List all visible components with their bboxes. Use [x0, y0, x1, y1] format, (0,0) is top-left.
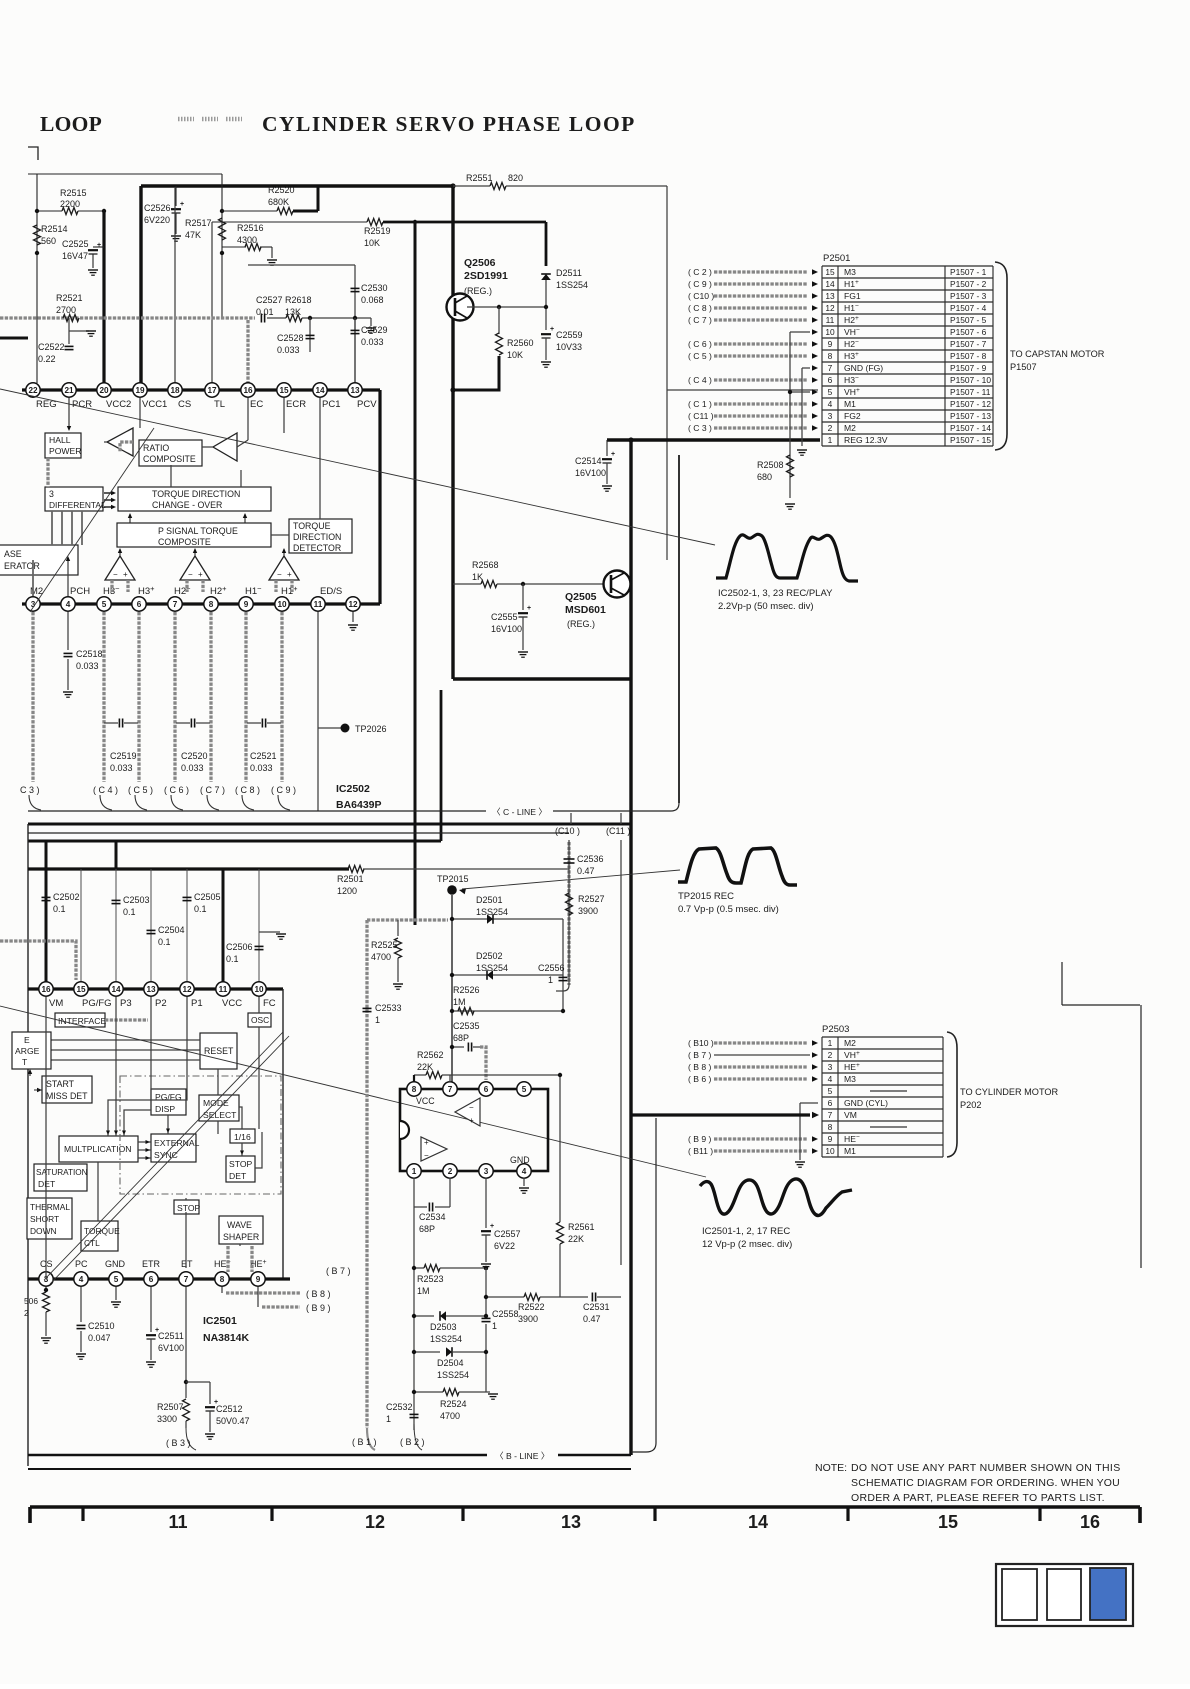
svg-text:6: 6: [828, 1098, 833, 1108]
svg-text:FG1: FG1: [844, 291, 861, 301]
svg-text:4700: 4700: [371, 952, 391, 962]
svg-text:TO CYLINDER MOTOR: TO CYLINDER MOTOR: [960, 1087, 1059, 1097]
svg-text:P1507: P1507: [1010, 362, 1037, 372]
svg-text:+: +: [123, 570, 128, 579]
svg-text:2: 2: [828, 423, 833, 433]
svg-text:+: +: [424, 1138, 429, 1147]
svg-text:C2530: C2530: [361, 283, 388, 293]
svg-text:−: −: [424, 1151, 429, 1160]
svg-text:IC2501-1, 2, 17 REC: IC2501-1, 2, 17 REC: [702, 1226, 790, 1237]
svg-text:C2536: C2536: [577, 854, 604, 864]
svg-text:VCC2: VCC2: [106, 399, 131, 410]
svg-text:( C 5 ): ( C 5 ): [688, 351, 712, 361]
svg-text:15: 15: [938, 1512, 958, 1532]
svg-text:4: 4: [522, 1167, 527, 1176]
svg-text:1: 1: [375, 1015, 380, 1025]
svg-text:P1507 - 3: P1507 - 3: [950, 291, 987, 301]
svg-text:10: 10: [277, 600, 287, 609]
svg-text:ETR: ETR: [142, 1259, 161, 1269]
svg-text:12: 12: [365, 1512, 385, 1532]
svg-text:MSD601: MSD601: [565, 604, 606, 616]
svg-text:15: 15: [279, 386, 289, 395]
svg-text:P202: P202: [960, 1100, 981, 1110]
svg-text:1: 1: [412, 1167, 417, 1176]
svg-text:LOOP: LOOP: [40, 112, 102, 136]
svg-text:−: −: [277, 570, 282, 579]
svg-text:1: 1: [548, 975, 553, 985]
svg-text:6: 6: [149, 1275, 154, 1284]
svg-text:−: −: [188, 570, 193, 579]
svg-text:TORQUE: TORQUE: [293, 521, 331, 531]
svg-text:14: 14: [315, 386, 325, 395]
svg-text:9: 9: [828, 339, 833, 349]
svg-text:TORQUE DIRECTION: TORQUE DIRECTION: [152, 489, 240, 499]
svg-text:PC1: PC1: [322, 399, 340, 410]
svg-text:P SIGNAL TORQUE: P SIGNAL TORQUE: [158, 526, 238, 536]
svg-text:4: 4: [828, 399, 833, 409]
svg-text:0.1: 0.1: [158, 937, 171, 947]
svg-text:D2504: D2504: [437, 1358, 464, 1368]
svg-text:12: 12: [182, 985, 192, 994]
svg-text:13: 13: [146, 985, 156, 994]
svg-text:FC: FC: [263, 998, 276, 1009]
svg-text:1: 1: [828, 435, 833, 445]
svg-text:TO CAPSTAN MOTOR: TO CAPSTAN MOTOR: [1010, 349, 1105, 359]
svg-text:ED/S: ED/S: [320, 586, 342, 597]
svg-text:P3: P3: [120, 998, 132, 1009]
svg-text:D2503: D2503: [430, 1322, 457, 1332]
svg-text:0.1: 0.1: [226, 954, 239, 964]
svg-text:Q2505: Q2505: [565, 591, 597, 603]
svg-text:P1507 - 6: P1507 - 6: [950, 327, 987, 337]
svg-text:TP2015: TP2015: [437, 874, 469, 884]
svg-text:R2524: R2524: [440, 1399, 467, 1409]
svg-text:P2: P2: [155, 998, 167, 1009]
svg-text:VCC: VCC: [222, 998, 242, 1009]
svg-text:ERATOR: ERATOR: [4, 561, 40, 571]
svg-text:+: +: [180, 201, 184, 208]
svg-text:START: START: [46, 1079, 75, 1089]
svg-text:14: 14: [825, 279, 835, 289]
svg-text:R2501: R2501: [337, 874, 364, 884]
svg-text:1: 1: [492, 1321, 497, 1331]
svg-text:10V33: 10V33: [556, 342, 582, 352]
svg-text:SHORT: SHORT: [30, 1214, 59, 1224]
svg-text:C2531: C2531: [583, 1302, 610, 1312]
svg-text:R2519: R2519: [364, 226, 391, 236]
svg-text:C2528: C2528: [277, 333, 304, 343]
svg-text:1M: 1M: [453, 997, 466, 1007]
svg-text:680: 680: [757, 472, 772, 482]
svg-text:0.1: 0.1: [123, 907, 136, 917]
svg-text:〈 C - LINE 〉: 〈 C - LINE 〉: [492, 807, 547, 817]
svg-text:68P: 68P: [419, 1224, 435, 1234]
svg-text:GND: GND: [510, 1155, 530, 1165]
svg-text:4300: 4300: [237, 235, 257, 245]
svg-text:( C 9 ): ( C 9 ): [271, 785, 296, 795]
svg-text:0.047: 0.047: [88, 1333, 111, 1343]
svg-text:C2506: C2506: [226, 942, 253, 952]
svg-text:R2560: R2560: [507, 338, 534, 348]
svg-text:8: 8: [412, 1085, 417, 1094]
svg-text:( C 5 ): ( C 5 ): [128, 785, 153, 795]
svg-text:47K: 47K: [185, 230, 201, 240]
svg-text:+: +: [97, 242, 101, 249]
svg-text:GND (FG): GND (FG): [844, 363, 883, 373]
svg-text:0.033: 0.033: [277, 345, 300, 355]
svg-text:5: 5: [102, 600, 107, 609]
svg-text:M1: M1: [844, 1146, 856, 1156]
svg-text:MISS DET: MISS DET: [46, 1091, 88, 1101]
svg-text:( C 4 ): ( C 4 ): [93, 785, 118, 795]
svg-text:C2505: C2505: [194, 892, 221, 902]
svg-text:CHANGE - OVER: CHANGE - OVER: [152, 500, 222, 510]
svg-text:PC: PC: [75, 1259, 88, 1269]
svg-text:D2502: D2502: [476, 951, 503, 961]
svg-text:2: 2: [448, 1167, 453, 1176]
svg-text:( C 3 ): ( C 3 ): [688, 423, 712, 433]
svg-text:0.033: 0.033: [181, 763, 204, 773]
svg-text:10: 10: [254, 985, 264, 994]
svg-text:R2516: R2516: [237, 223, 264, 233]
svg-text:11: 11: [219, 985, 228, 994]
svg-text:8: 8: [220, 1275, 225, 1284]
svg-text:ECR: ECR: [286, 399, 306, 410]
svg-text:(C10 ): (C10 ): [555, 826, 580, 836]
svg-text:R2561: R2561: [568, 1222, 595, 1232]
svg-text:18: 18: [170, 386, 180, 395]
svg-text:VCC: VCC: [416, 1096, 435, 1106]
svg-text:0.01: 0.01: [256, 307, 274, 317]
svg-text:SHAPER: SHAPER: [223, 1232, 259, 1242]
svg-text:R2551: R2551: [466, 173, 493, 183]
svg-text:13: 13: [561, 1512, 581, 1532]
svg-text:DIRECTION: DIRECTION: [293, 532, 341, 542]
svg-text:C2502: C2502: [53, 892, 80, 902]
svg-text:Q2506: Q2506: [464, 257, 496, 269]
svg-text:(REG.): (REG.): [567, 619, 595, 629]
svg-text:560: 560: [41, 236, 56, 246]
svg-text:2SD1991: 2SD1991: [464, 270, 508, 282]
svg-text:COMPOSITE: COMPOSITE: [158, 537, 211, 547]
svg-text:R2526: R2526: [453, 985, 480, 995]
svg-text:16V100: 16V100: [491, 624, 522, 634]
svg-text:2700: 2700: [56, 305, 76, 315]
svg-text:C2520: C2520: [181, 751, 208, 761]
svg-text:PG/FG: PG/FG: [82, 998, 112, 1009]
svg-text:2.2Vp-p (50 msec. div): 2.2Vp-p (50 msec. div): [718, 601, 814, 612]
svg-text:C2533: C2533: [375, 1003, 402, 1013]
svg-text:−: −: [469, 1103, 474, 1112]
svg-text:16: 16: [1080, 1512, 1100, 1532]
svg-text:( B 3 ): ( B 3 ): [166, 1438, 191, 1448]
svg-text:( C 8 ): ( C 8 ): [235, 785, 260, 795]
svg-text:( C 2 ): ( C 2 ): [688, 267, 712, 277]
svg-text:STOP: STOP: [229, 1159, 253, 1169]
svg-text:T: T: [22, 1057, 28, 1067]
svg-text:C2525: C2525: [62, 239, 89, 249]
svg-text:C2511: C2511: [158, 1331, 184, 1341]
svg-text:RESET: RESET: [204, 1046, 234, 1056]
svg-text:COMPOSITE: COMPOSITE: [143, 454, 196, 464]
svg-text:C2534: C2534: [419, 1212, 446, 1222]
svg-text:0.033: 0.033: [361, 337, 384, 347]
svg-text:+: +: [469, 1116, 474, 1125]
svg-text:R2521: R2521: [56, 293, 83, 303]
svg-text:PCH: PCH: [70, 586, 90, 597]
svg-text:HALL: HALL: [49, 435, 71, 445]
svg-text:0.47: 0.47: [583, 1314, 601, 1324]
svg-text:3: 3: [828, 411, 833, 421]
svg-text:3: 3: [828, 1062, 833, 1072]
svg-text:8: 8: [828, 351, 833, 361]
svg-text:10: 10: [825, 1146, 835, 1156]
svg-text:7: 7: [184, 1275, 189, 1284]
svg-text:R2523: R2523: [417, 1274, 444, 1284]
svg-text:P1507 - 14: P1507 - 14: [950, 423, 991, 433]
svg-text:PCV: PCV: [357, 399, 377, 410]
svg-text:2200: 2200: [60, 199, 80, 209]
svg-text:BA6439P: BA6439P: [336, 799, 382, 811]
svg-text:MULTPLICATION: MULTPLICATION: [64, 1144, 131, 1154]
svg-text:SCHEMATIC DIAGRAM FOR ORDERING: SCHEMATIC DIAGRAM FOR ORDERING. WHEN YOU: [851, 1477, 1120, 1489]
svg-text:4: 4: [66, 600, 71, 609]
svg-text:( B 2 ): ( B 2 ): [400, 1437, 425, 1447]
svg-text:+: +: [550, 326, 554, 333]
svg-text:0.033: 0.033: [250, 763, 273, 773]
svg-text:P1507 - 7: P1507 - 7: [950, 339, 987, 349]
svg-text:P1507 - 11: P1507 - 11: [950, 387, 991, 397]
svg-text:1: 1: [386, 1414, 391, 1424]
svg-text:1200: 1200: [337, 886, 357, 896]
svg-text:50V0.47: 50V0.47: [216, 1416, 250, 1426]
svg-text:12: 12: [825, 303, 835, 313]
svg-text:ARGE: ARGE: [15, 1046, 40, 1056]
svg-text:P1507 - 9: P1507 - 9: [950, 363, 987, 373]
svg-text:P1507 - 1: P1507 - 1: [950, 267, 987, 277]
svg-text:IC2502: IC2502: [336, 783, 370, 795]
svg-text:TP2026: TP2026: [355, 724, 387, 734]
svg-text:C2527: C2527: [256, 295, 283, 305]
svg-text:16V47: 16V47: [62, 251, 88, 261]
svg-text:820: 820: [508, 173, 523, 183]
svg-text:( B 7 ): ( B 7 ): [688, 1050, 712, 1060]
svg-text:12: 12: [348, 600, 358, 609]
svg-text:C2512: C2512: [216, 1404, 243, 1414]
svg-text:7: 7: [828, 363, 833, 373]
svg-text:P1: P1: [191, 998, 203, 1009]
svg-text:R2527: R2527: [578, 894, 605, 904]
svg-text:0.47: 0.47: [577, 866, 595, 876]
svg-text:4700: 4700: [440, 1411, 460, 1421]
svg-text:3: 3: [49, 489, 54, 499]
svg-text:R2568: R2568: [472, 560, 499, 570]
svg-text:INTERFACE: INTERFACE: [58, 1016, 106, 1026]
svg-text:9: 9: [828, 1134, 833, 1144]
svg-text:P1507 - 2: P1507 - 2: [950, 279, 987, 289]
svg-text:( B11 ): ( B11 ): [688, 1146, 713, 1156]
svg-text:GND: GND: [105, 1259, 126, 1269]
svg-text:(REG.): (REG.): [464, 286, 492, 296]
svg-text:NA3814K: NA3814K: [203, 1332, 250, 1344]
svg-text:P1507 - 8: P1507 - 8: [950, 351, 987, 361]
svg-text:CYLINDER SERVO PHASE LOOP: CYLINDER SERVO PHASE LOOP: [262, 112, 636, 136]
svg-text:7: 7: [828, 1110, 833, 1120]
svg-text:DETECTOR: DETECTOR: [293, 543, 341, 553]
svg-text:8: 8: [828, 1122, 833, 1132]
svg-text:( C 8 ): ( C 8 ): [688, 303, 712, 313]
svg-text:(C11 ): (C11 ): [606, 826, 630, 836]
svg-text:C2529: C2529: [361, 325, 388, 335]
svg-text:P2503: P2503: [822, 1024, 849, 1035]
svg-text:DET: DET: [229, 1171, 247, 1181]
svg-text:DOWN: DOWN: [30, 1226, 57, 1236]
svg-text:( B10 ): ( B10 ): [688, 1038, 714, 1048]
svg-text:C2521: C2521: [250, 751, 277, 761]
svg-text:2: 2: [828, 1050, 833, 1060]
svg-text:1/16: 1/16: [234, 1132, 251, 1142]
svg-text:C2532: C2532: [386, 1402, 413, 1412]
svg-text:68P: 68P: [453, 1033, 469, 1043]
svg-text:13K: 13K: [285, 307, 301, 317]
svg-text:R2514: R2514: [41, 224, 68, 234]
svg-text:SELECT: SELECT: [203, 1110, 237, 1120]
svg-text:5: 5: [828, 1086, 833, 1096]
svg-text:P1507 - 5: P1507 - 5: [950, 315, 987, 325]
svg-text:( B 8 ): ( B 8 ): [688, 1062, 712, 1072]
svg-text:6: 6: [828, 375, 833, 385]
svg-text:22K: 22K: [417, 1062, 433, 1072]
svg-text:0.1: 0.1: [194, 904, 207, 914]
svg-text:C 3 ): C 3 ): [20, 785, 40, 795]
svg-text:22: 22: [28, 386, 38, 395]
svg-text:DO NOT USE ANY PART NUMBER SHO: DO NOT USE ANY PART NUMBER SHOWN ON THIS: [851, 1462, 1121, 1474]
svg-text:( B 9 ): ( B 9 ): [306, 1303, 331, 1313]
svg-text:3900: 3900: [518, 1314, 538, 1324]
svg-text:1: 1: [828, 1038, 833, 1048]
svg-text:C2503: C2503: [123, 895, 150, 905]
svg-text:REG 12.3V: REG 12.3V: [844, 435, 888, 445]
svg-text:NOTE:: NOTE:: [815, 1462, 847, 1474]
svg-text:MODE: MODE: [203, 1098, 229, 1108]
svg-text:5: 5: [114, 1275, 119, 1284]
svg-text:C2518: C2518: [76, 649, 103, 659]
svg-text:12 Vp-p (2 msec. div): 12 Vp-p (2 msec. div): [702, 1239, 792, 1250]
svg-text:17: 17: [207, 386, 217, 395]
svg-text:〈 B - LINE 〉: 〈 B - LINE 〉: [495, 1451, 549, 1461]
svg-text:R2507: R2507: [157, 1402, 184, 1412]
svg-text:6: 6: [137, 600, 142, 609]
svg-text:DET: DET: [38, 1179, 56, 1189]
svg-text:STOP: STOP: [177, 1203, 201, 1213]
svg-text:FG2: FG2: [844, 411, 861, 421]
svg-text:C2558: C2558: [492, 1309, 519, 1319]
svg-text:ORDER A PART, PLEASE REFER TO: ORDER A PART, PLEASE REFER TO PARTS LIST…: [851, 1492, 1105, 1504]
svg-text:C2555: C2555: [491, 612, 518, 622]
svg-text:14: 14: [748, 1512, 768, 1532]
svg-text:1SS254: 1SS254: [556, 280, 588, 290]
svg-text:VM: VM: [49, 998, 63, 1009]
svg-text:+: +: [198, 570, 203, 579]
svg-text:4: 4: [79, 1275, 84, 1284]
svg-text:3: 3: [484, 1167, 489, 1176]
svg-text:8: 8: [209, 600, 214, 609]
svg-text:21: 21: [64, 386, 74, 395]
svg-text:3300: 3300: [157, 1414, 177, 1424]
svg-text:( B 1 ): ( B 1 ): [352, 1437, 377, 1447]
svg-text:( C10 ): ( C10 ): [688, 291, 714, 301]
svg-text:11: 11: [314, 600, 323, 609]
svg-text:R2508: R2508: [757, 460, 784, 470]
svg-text:1SS254: 1SS254: [430, 1334, 462, 1344]
svg-text:VM: VM: [844, 1110, 857, 1120]
svg-text:( C 4 ): ( C 4 ): [688, 375, 712, 385]
svg-text:P1507 - 13: P1507 - 13: [950, 411, 991, 421]
svg-text:EXTERNAL: EXTERNAL: [154, 1138, 200, 1148]
svg-text:( C11 ): ( C11 ): [688, 411, 714, 421]
svg-text:R2520: R2520: [268, 185, 295, 195]
svg-text:GND (CYL): GND (CYL): [844, 1098, 888, 1108]
svg-text:0.1: 0.1: [53, 904, 66, 914]
svg-text:9: 9: [244, 600, 249, 609]
svg-text:M1: M1: [844, 399, 856, 409]
svg-text:C2557: C2557: [494, 1229, 521, 1239]
svg-text:TP2015 REC: TP2015 REC: [678, 891, 734, 902]
svg-text:1SS254: 1SS254: [476, 907, 508, 917]
svg-text:TL: TL: [214, 399, 225, 410]
svg-text:6: 6: [484, 1085, 489, 1094]
svg-text:10K: 10K: [364, 238, 380, 248]
svg-text:THERMAL: THERMAL: [30, 1202, 70, 1212]
svg-text:TORQUE: TORQUE: [84, 1226, 120, 1236]
svg-text:11: 11: [826, 315, 835, 325]
svg-text:R2515: R2515: [60, 188, 87, 198]
svg-text:( C 1 ): ( C 1 ): [688, 399, 712, 409]
svg-text:CS: CS: [178, 399, 191, 410]
svg-text:C2519: C2519: [110, 751, 137, 761]
svg-text:6V22: 6V22: [494, 1241, 515, 1251]
svg-text:13: 13: [350, 386, 360, 395]
svg-text:1M: 1M: [417, 1286, 430, 1296]
svg-text:RATIO: RATIO: [143, 443, 169, 453]
svg-text:M3: M3: [844, 267, 856, 277]
svg-text:M2: M2: [844, 1038, 856, 1048]
svg-text:+: +: [611, 451, 615, 458]
svg-text:10: 10: [825, 327, 835, 337]
svg-text:0.068: 0.068: [361, 295, 384, 305]
svg-text:+: +: [287, 570, 292, 579]
svg-text:D2501: D2501: [476, 895, 503, 905]
svg-text:1K: 1K: [472, 572, 483, 582]
svg-text:16: 16: [243, 386, 253, 395]
svg-text:( C 7 ): ( C 7 ): [200, 785, 225, 795]
svg-text:C2522: C2522: [38, 342, 65, 352]
svg-text:( B 6 ): ( B 6 ): [688, 1074, 712, 1084]
svg-text:P1507 - 12: P1507 - 12: [950, 399, 991, 409]
svg-text:6V220: 6V220: [144, 215, 170, 225]
svg-text:DIFFERENTAL: DIFFERENTAL: [49, 500, 106, 510]
svg-text:15: 15: [825, 267, 835, 277]
svg-text:P1507 - 15: P1507 - 15: [950, 435, 991, 445]
svg-text:4: 4: [828, 1074, 833, 1084]
svg-text:13: 13: [825, 291, 835, 301]
svg-text:P1507 - 4: P1507 - 4: [950, 303, 987, 313]
svg-text:( B 8 ): ( B 8 ): [306, 1289, 331, 1299]
svg-text:POWER: POWER: [49, 446, 81, 456]
svg-text:C2514: C2514: [575, 456, 602, 466]
svg-text:M3: M3: [844, 1074, 856, 1084]
svg-text:22K: 22K: [568, 1234, 584, 1244]
